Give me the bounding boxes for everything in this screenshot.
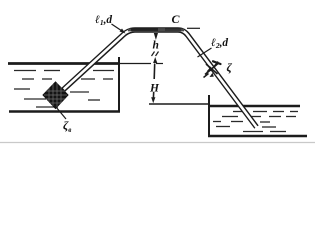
horizontal pipe dark fill (shaded section) (128, 29, 184, 32)
dimension H: bottom arrow (points down) (151, 97, 155, 103)
svg-text:C: C (172, 12, 181, 26)
faint scan artifact line (0, 142, 315, 144)
dimension H: stem lower (152, 92, 154, 98)
leader from l2,d label to pipe (198, 48, 212, 57)
right tank water surface (209, 105, 300, 107)
T-handle bar (213, 61, 221, 64)
svg-text:ℓ2,d: ℓ2,d (211, 37, 228, 50)
small double tick marks (152, 52, 155, 57)
dimension H: stem upper (153, 64, 156, 80)
right tank water dashes (213, 112, 298, 132)
dimension h: top arrow wedge under pipe (154, 33, 158, 40)
valve on right pipe (204, 61, 221, 77)
svg-text:h: h (153, 40, 159, 52)
leader from l1,d label to pipe bend (112, 24, 124, 32)
right tank left wall (208, 95, 210, 136)
pipe: outer black outline (63, 30, 257, 127)
dimension h: bottom arrow blob at level line (153, 57, 157, 63)
dash-dot tail right of dimension line (156, 63, 163, 65)
left tank water surface (8, 62, 119, 65)
small arrow ticks at valve on pipe (207, 67, 212, 72)
strainer (foot valve) diamond (43, 82, 68, 109)
right tank bottom (208, 135, 307, 138)
left tank water dashes (14, 71, 114, 108)
svg-text:ζв: ζв (63, 118, 71, 134)
extension line from left water level to dimension line (119, 63, 151, 65)
reference line at right tank level (T-bar + extension to wall) (149, 103, 209, 105)
svg-text:ℓ1,d: ℓ1,d (95, 14, 112, 27)
T-handle stem (214, 62, 218, 67)
left tank bottom (9, 110, 120, 113)
svg-text:H: H (149, 83, 160, 95)
left tank right wall (118, 57, 120, 112)
pipe: inner white channel (64, 30, 258, 129)
thin extension line right of bend C (187, 27, 200, 29)
leader line to zeta_v label (56, 107, 66, 119)
svg-text:ζ: ζ (227, 60, 233, 74)
